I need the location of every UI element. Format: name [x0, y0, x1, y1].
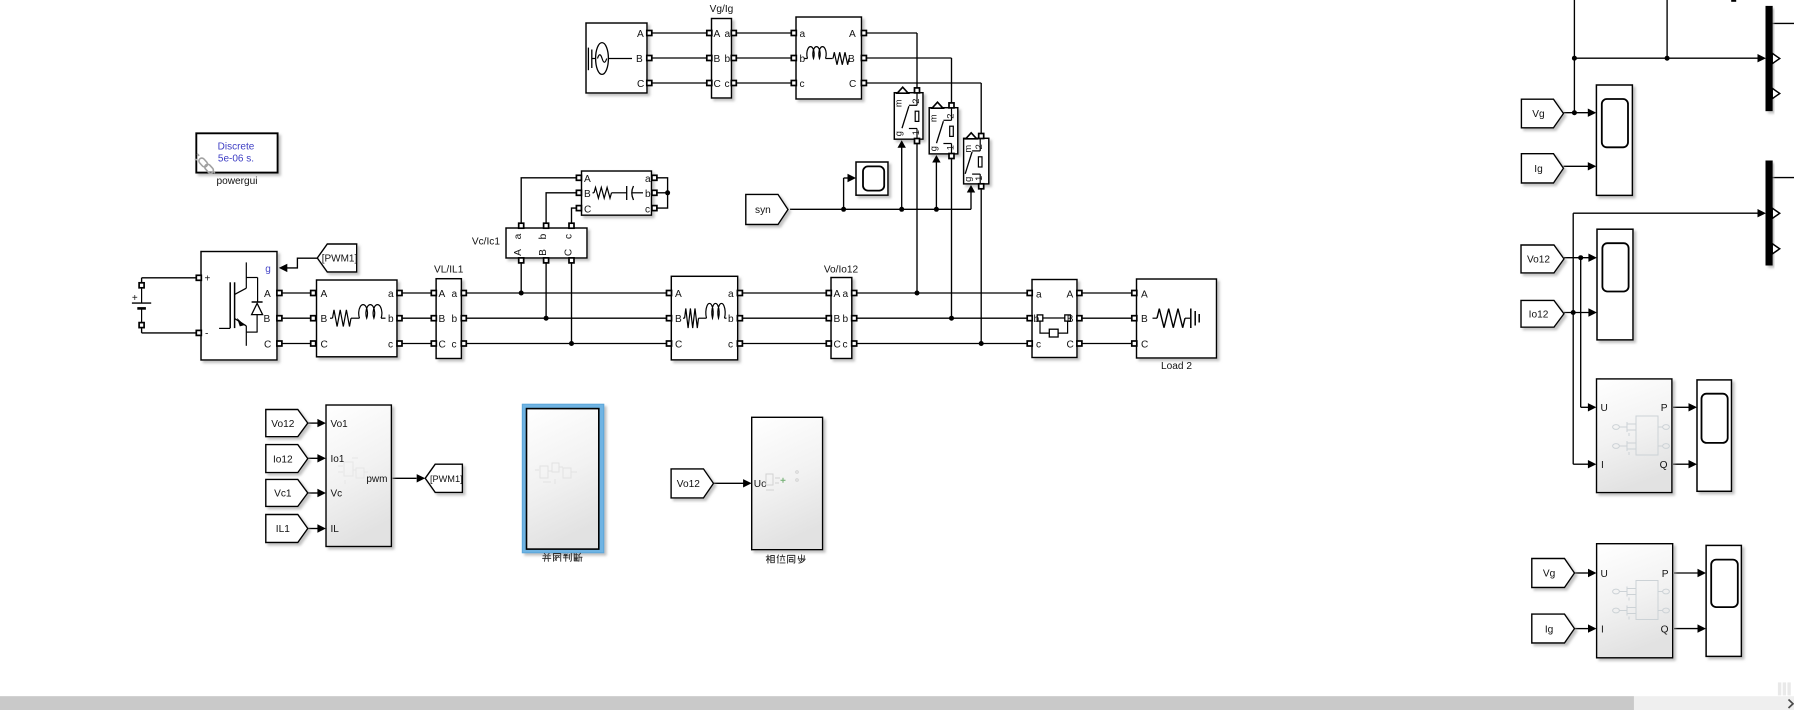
svg-text:[PWM1]: [PWM1] [430, 474, 463, 484]
svg-text:A: A [1141, 290, 1148, 301]
svg-text:a: a [728, 289, 734, 300]
svg-text:B: B [538, 249, 549, 256]
svg-text:Io12: Io12 [1529, 310, 1549, 321]
svg-text:Vg/Ig: Vg/Ig [710, 4, 734, 15]
svg-text:c: c [645, 204, 650, 215]
svg-text:VL/IL1: VL/IL1 [434, 265, 464, 276]
svg-text:A: A [637, 29, 644, 40]
svg-text:C: C [1067, 340, 1074, 351]
svg-text:C: C [1141, 340, 1148, 351]
svg-text:c: c [728, 339, 733, 350]
svg-text:Q: Q [1661, 625, 1669, 636]
svg-text:Io12: Io12 [273, 454, 293, 465]
svg-text:c: c [725, 79, 730, 90]
svg-text:a: a [452, 289, 458, 300]
svg-text:C: C [637, 79, 644, 90]
svg-text:Uo: Uo [754, 479, 767, 490]
svg-text:powergui: powergui [216, 176, 257, 187]
svg-text:1: 1 [911, 130, 921, 135]
svg-text:B: B [584, 189, 591, 200]
svg-text:2: 2 [911, 99, 921, 104]
svg-text:IL: IL [331, 524, 340, 535]
svg-text:C: C [564, 249, 575, 256]
svg-text:A: A [849, 29, 856, 40]
svg-text:IL1: IL1 [276, 524, 290, 535]
svg-text:C: C [834, 339, 841, 350]
svg-text:Vo1: Vo1 [331, 419, 349, 430]
svg-text:1: 1 [974, 176, 984, 181]
svg-text:U: U [1601, 569, 1608, 580]
svg-text:m: m [928, 114, 938, 122]
svg-text:Discrete: Discrete [218, 142, 255, 153]
svg-text:P: P [1661, 403, 1668, 414]
svg-text:Ig: Ig [1534, 164, 1542, 175]
svg-text:c: c [564, 234, 575, 239]
svg-text:C: C [675, 339, 682, 350]
svg-text:+: + [205, 274, 211, 285]
svg-text:B: B [636, 54, 643, 65]
svg-text:b: b [843, 314, 849, 325]
svg-text:Vg: Vg [1543, 569, 1555, 580]
svg-text:2: 2 [945, 114, 955, 119]
svg-text:b: b [645, 189, 651, 200]
svg-text:a: a [388, 289, 394, 300]
svg-text:a: a [843, 289, 849, 300]
svg-text:a: a [1036, 290, 1042, 301]
svg-text:A: A [321, 289, 328, 300]
svg-text:+: + [132, 293, 138, 304]
svg-text:B: B [1141, 314, 1148, 325]
svg-text:Io1: Io1 [331, 454, 345, 465]
svg-text:g: g [928, 146, 938, 151]
svg-text:Vo12: Vo12 [1527, 255, 1550, 266]
svg-text:A: A [439, 289, 446, 300]
svg-text:C: C [264, 340, 271, 351]
svg-text:syn: syn [755, 205, 771, 216]
svg-text:Ig: Ig [1545, 624, 1553, 635]
svg-text:B: B [714, 54, 721, 65]
svg-text:b: b [538, 233, 549, 239]
svg-text:I: I [1601, 460, 1604, 471]
svg-text:B: B [264, 314, 271, 325]
svg-text:a: a [645, 174, 651, 185]
svg-text:Load 2: Load 2 [1161, 361, 1192, 372]
svg-text:c: c [388, 339, 393, 350]
svg-text:B: B [834, 314, 841, 325]
svg-text:A: A [513, 249, 524, 256]
svg-text:C: C [321, 339, 328, 350]
svg-text:1: 1 [945, 145, 955, 150]
svg-text:pwm: pwm [366, 474, 387, 485]
svg-text:b: b [1034, 314, 1040, 325]
svg-text:A: A [1067, 290, 1074, 301]
svg-text:5e-06 s.: 5e-06 s. [218, 154, 254, 165]
svg-text:C: C [849, 79, 856, 90]
svg-text:A: A [834, 289, 841, 300]
svg-text:B: B [439, 314, 446, 325]
svg-text:m: m [894, 99, 904, 107]
svg-text:Q: Q [1660, 460, 1668, 471]
svg-text:C: C [714, 79, 721, 90]
svg-text:Vo12: Vo12 [677, 479, 700, 490]
svg-text:a: a [725, 29, 731, 40]
svg-text:Vo/Io12: Vo/Io12 [824, 265, 859, 276]
svg-text:Vc: Vc [331, 489, 343, 500]
svg-text:g: g [963, 177, 973, 182]
svg-text:Vg: Vg [1532, 109, 1544, 120]
svg-text:Vc/Ic1: Vc/Ic1 [472, 237, 501, 248]
svg-text:c: c [843, 339, 848, 350]
svg-text:C: C [439, 339, 446, 350]
svg-text:-: - [205, 329, 208, 340]
svg-text:b: b [452, 314, 458, 325]
svg-text:m: m [963, 145, 973, 153]
svg-text:A: A [675, 289, 682, 300]
svg-text:a: a [513, 233, 524, 239]
svg-text:b: b [728, 314, 734, 325]
svg-text:A: A [584, 174, 591, 185]
svg-text:b: b [725, 54, 731, 65]
svg-text:c: c [1036, 340, 1041, 351]
svg-text:g: g [894, 131, 904, 136]
svg-text:Vc1: Vc1 [274, 489, 292, 500]
svg-text:b: b [388, 314, 394, 325]
svg-text:B: B [675, 314, 682, 325]
svg-text:C: C [584, 204, 591, 215]
svg-text:A: A [714, 29, 721, 40]
svg-text:a: a [800, 29, 806, 40]
svg-text:A: A [264, 289, 271, 300]
svg-text:c: c [452, 339, 457, 350]
svg-text:b: b [800, 54, 806, 65]
svg-text:[PWM1]: [PWM1] [322, 254, 358, 265]
svg-text:U: U [1601, 403, 1608, 414]
svg-text:c: c [800, 79, 805, 90]
svg-text:2: 2 [974, 144, 984, 149]
svg-text:P: P [1662, 569, 1669, 580]
svg-text:I: I [1601, 625, 1604, 636]
svg-text:g: g [265, 264, 271, 275]
svg-text:B: B [321, 314, 328, 325]
svg-text:Vo12: Vo12 [271, 419, 294, 430]
